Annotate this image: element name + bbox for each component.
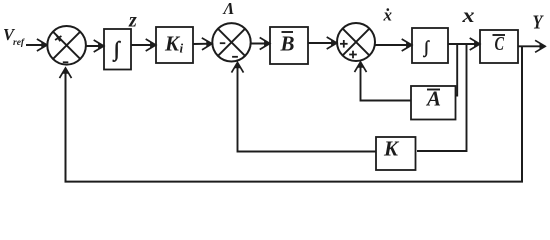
svg-text:i: i	[180, 41, 184, 56]
gain block C bar	[480, 30, 518, 63]
wire K block output to summing junction 2	[238, 63, 377, 152]
summing junction 3	[337, 23, 375, 61]
minus sign bottom of summing junction 2	[232, 56, 238, 58]
gain block K	[376, 137, 416, 171]
integrator block 2	[412, 28, 448, 63]
node x-dot label	[383, 6, 393, 25]
svg-text:K: K	[383, 137, 400, 161]
summing junction 2	[212, 23, 250, 61]
wire integrator 1 to Ki block	[131, 44, 156, 46]
wire summing junction 1 to integrator block 1	[86, 45, 104, 47]
wire tap from x node down to K block input	[417, 44, 467, 151]
svg-text:∫: ∫	[113, 37, 122, 62]
wire B block to summing junction 3	[308, 42, 337, 44]
gain block B bar	[270, 27, 308, 64]
wire Ki to summing junction 2	[193, 43, 212, 45]
summing junction 1	[47, 26, 86, 65]
plus sign bottom of summing junction 3	[349, 51, 357, 59]
svg-text:C: C	[495, 33, 505, 55]
plus sign left of summing junction 3	[340, 40, 348, 48]
wire A bar output to summing junction 3	[361, 62, 412, 101]
svg-text:Y: Y	[533, 13, 545, 34]
svg-text:x: x	[461, 3, 474, 27]
minus sign of summing junction 1	[63, 61, 69, 63]
gain block Ki	[156, 27, 193, 63]
wire summing junction 3 to integrator block 2	[375, 44, 412, 46]
plus sign of summing junction 1	[53, 33, 63, 43]
wire integrator 2 to C block	[448, 43, 480, 45]
svg-text:K: K	[164, 32, 181, 56]
svg-text:z: z	[128, 10, 137, 32]
wire summing junction 2 to B block	[251, 43, 270, 45]
integrator block 1	[104, 29, 131, 70]
svg-text:∫: ∫	[423, 38, 430, 58]
node Vref input label	[3, 25, 25, 48]
wire output feedback loop to summing junction 1	[66, 46, 523, 181]
wire tap from x node down to A bar block input	[456, 44, 458, 96]
gain block A bar	[411, 86, 456, 120]
wire C block to output Y	[518, 45, 545, 47]
minus sign left of summing junction 2	[220, 42, 226, 44]
svg-text:ref: ref	[13, 38, 25, 48]
svg-text:B: B	[280, 32, 295, 56]
svg-text:Λ: Λ	[223, 0, 235, 18]
wire Vref to summing junction 1	[26, 44, 47, 46]
